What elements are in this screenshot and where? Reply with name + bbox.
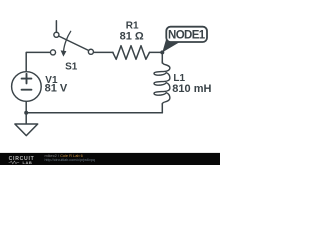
wire switch right terminal to R1 <box>94 51 114 53</box>
wire ground stub <box>25 113 27 124</box>
inductor L1 coil <box>154 62 170 105</box>
wire node A down to L1 top <box>161 52 163 63</box>
switch S1 <box>50 21 93 55</box>
wire V1 top to switch left terminal <box>26 52 51 71</box>
switch blade <box>59 36 89 51</box>
actuation arc <box>64 31 71 51</box>
svg-text:http://circuitlab.com/c/prjw6v: http://circuitlab.com/c/prjw6vpq <box>45 158 95 162</box>
wire R1 to node A <box>150 51 163 53</box>
actuation arrowhead <box>61 50 67 56</box>
stub wire above top throw <box>55 21 57 32</box>
svg-text:81 V: 81 V <box>45 82 68 94</box>
junction node A dot <box>160 50 164 54</box>
wire V1 bottom to rail <box>25 101 27 112</box>
wire L1 bottom to bottom rail corner <box>161 104 163 113</box>
top throw terminal <box>54 32 59 37</box>
watermark bar <box>0 153 220 165</box>
svg-text:81 Ω: 81 Ω <box>120 30 144 42</box>
svg-text:NODE1: NODE1 <box>168 29 206 41</box>
ground symbol <box>15 124 38 136</box>
junction dot at ground <box>24 111 28 115</box>
watermark logo squiggle <box>9 161 20 164</box>
net flag NODE1 tail <box>162 39 180 53</box>
svg-text:810 mH: 810 mH <box>172 83 211 95</box>
voltage source V1 <box>12 72 42 102</box>
svg-text:S1: S1 <box>65 62 78 73</box>
net flag NODE1 box <box>166 27 207 42</box>
right terminal <box>88 49 93 54</box>
wire bottom rail <box>26 112 162 114</box>
resistor R1 <box>113 46 150 60</box>
svg-text:LAB: LAB <box>23 160 33 165</box>
left pole terminal <box>50 50 55 55</box>
